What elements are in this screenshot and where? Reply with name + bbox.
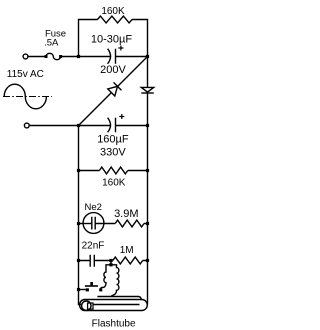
resistor R4 1M bbox=[113, 257, 143, 264]
switch actuator nub bbox=[90, 282, 93, 286]
junction node left row5 bbox=[77, 222, 80, 225]
right rail lower bbox=[147, 93, 149, 305]
wire 1M junction down to transformer tap bbox=[110, 261, 112, 265]
wire diagonal bbox=[79, 57, 148, 126]
svg-text:160K: 160K bbox=[101, 6, 125, 17]
switch contact right bbox=[99, 288, 102, 291]
junction node left row3 bbox=[77, 124, 80, 127]
terminal T2 bbox=[24, 123, 29, 128]
wire NE2 to R3 bbox=[95, 223, 115, 225]
wire 22nF row bbox=[79, 260, 112, 262]
wire terminal2 to left rail bbox=[29, 125, 78, 127]
svg-text:330V: 330V bbox=[100, 146, 126, 158]
trigger wire above tube bbox=[97, 297, 141, 300]
svg-text:1M: 1M bbox=[120, 245, 134, 256]
capacitor C1 10-30uF 200V bbox=[108, 49, 116, 64]
flashtube V1 envelope bbox=[80, 300, 148, 311]
svg-text:.5A: .5A bbox=[44, 37, 59, 48]
svg-text:160µF: 160µF bbox=[97, 133, 129, 145]
diode D1 on diagonal bbox=[108, 82, 122, 96]
capacitor C2 160uF 330V bbox=[108, 118, 116, 133]
junction node left row6 bbox=[77, 259, 80, 262]
svg-text:Ne2: Ne2 bbox=[85, 202, 102, 213]
wire terminal1 to fuse bbox=[28, 56, 46, 58]
junction node top-right bbox=[146, 55, 149, 58]
svg-text:200V: 200V bbox=[100, 64, 126, 76]
junction node transformer tap bbox=[109, 263, 112, 266]
resistor R1 160K top bbox=[98, 16, 133, 23]
wire fuse to left junction bbox=[61, 56, 79, 58]
NE2 electrodes bbox=[92, 217, 95, 230]
neon lamp NE2 bbox=[83, 213, 104, 234]
resistor R2 160K bbox=[99, 167, 127, 174]
junction node right row6 bbox=[146, 259, 149, 262]
wire cap row to right rail bbox=[79, 56, 148, 58]
junction node left row4 bbox=[77, 169, 80, 172]
flashtube cathode square bbox=[88, 303, 93, 309]
left rail bbox=[79, 126, 82, 305]
svg-text:Flashtube: Flashtube bbox=[92, 318, 136, 329]
wire top loop bbox=[79, 20, 148, 57]
terminal T1 bbox=[23, 54, 28, 59]
junction node right row5 bbox=[146, 222, 149, 225]
capacitor C3 22nF bbox=[90, 255, 94, 267]
wire R3 to right rail bbox=[144, 223, 148, 225]
junction node right row4 bbox=[146, 169, 149, 172]
wire left rail to NE2 bbox=[79, 223, 92, 225]
svg-text:22nF: 22nF bbox=[82, 240, 105, 251]
wire 160K2 row bbox=[79, 170, 148, 172]
switch S1 pushbutton bar bbox=[85, 285, 98, 287]
plus sign C1 bbox=[118, 46, 123, 51]
junction node right row3 bbox=[146, 124, 149, 127]
wire R4 ends bbox=[111, 260, 148, 262]
transformer T secondary winding bbox=[111, 265, 119, 297]
junction node switch stub on rail bbox=[77, 288, 80, 291]
wire 160uF row bbox=[79, 125, 148, 127]
diode D2 on right rail bbox=[141, 87, 153, 93]
transformer T primary winding bbox=[101, 265, 111, 289]
resistor R3 3.9M bbox=[115, 220, 144, 227]
AC source sine bbox=[4, 84, 46, 109]
svg-text:160K: 160K bbox=[102, 178, 126, 189]
flashtube internal anode line bbox=[93, 304, 139, 306]
AC source centerline dash-dot bbox=[3, 96, 52, 98]
junction dot fuse right bbox=[59, 55, 62, 58]
junction node trigger tap bbox=[109, 259, 112, 262]
svg-text:10-30µF: 10-30µF bbox=[91, 34, 132, 46]
plus sign C2 bbox=[119, 114, 124, 119]
fuse F1 .5A bbox=[46, 53, 61, 59]
svg-text:115v AC: 115v AC bbox=[7, 69, 44, 80]
svg-text:3.9M: 3.9M bbox=[114, 208, 138, 220]
switch stub wire left bbox=[79, 289, 86, 291]
right rail upper bbox=[147, 57, 149, 88]
junction dot fuse left bbox=[45, 55, 48, 58]
switch contact left bbox=[86, 288, 89, 291]
junction node top-left bbox=[77, 55, 80, 58]
flashtube left seal circle bbox=[82, 301, 91, 310]
